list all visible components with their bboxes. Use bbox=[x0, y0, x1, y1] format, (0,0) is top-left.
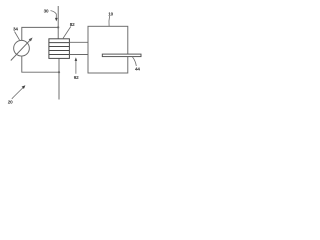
leader for label 34 bbox=[15, 32, 20, 41]
arrow for label 92 bbox=[75, 60, 77, 74]
wire upper link from stack to chamber bbox=[69, 41, 88, 43]
svg-text:82: 82 bbox=[70, 22, 75, 27]
svg-text:34: 34 bbox=[13, 26, 18, 31]
node junction at exhaust line bbox=[58, 71, 60, 73]
component stack box 82 (hatched rectangle) bbox=[49, 39, 70, 59]
svg-text:30: 30 bbox=[44, 9, 49, 14]
wire from circle top to gas line bbox=[22, 27, 58, 40]
wire exhaust line below stack bbox=[58, 58, 60, 99]
wire lower link (rod) 92 from stack to chamber bbox=[69, 54, 88, 56]
wire gas inlet line 30 (vertical tube) bbox=[57, 6, 59, 39]
arrow through circle (variable symbol) bbox=[11, 40, 31, 61]
wire from circle bottom to exhaust line bbox=[22, 56, 59, 72]
svg-text:20: 20 bbox=[8, 100, 13, 105]
node junction at gas line bbox=[57, 26, 59, 28]
flow controller circle 34 bbox=[14, 40, 30, 56]
leader for label 30 bbox=[51, 11, 57, 19]
leader for label 44 bbox=[133, 57, 137, 66]
svg-text:10: 10 bbox=[108, 12, 113, 17]
leader for label 10 bbox=[108, 16, 111, 26]
svg-text:44: 44 bbox=[135, 66, 140, 71]
chamber box 10 bbox=[88, 26, 128, 73]
arrow for label 20 (assembly) bbox=[12, 87, 23, 98]
stage bar 44 inside chamber bbox=[102, 54, 141, 57]
leader for label 82 bbox=[63, 27, 71, 39]
svg-text:92: 92 bbox=[74, 75, 79, 80]
